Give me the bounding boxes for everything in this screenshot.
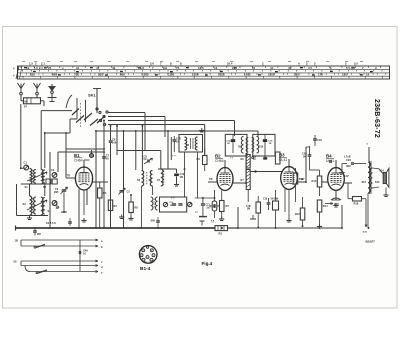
wire speaker top lead xyxy=(372,167,379,170)
pin circle 1 xyxy=(142,258,145,261)
svg-text:49: 49 xyxy=(288,66,292,70)
IF1 second coil S7 xyxy=(161,169,163,186)
svg-text:5 5.5: 5 5.5 xyxy=(346,66,353,70)
wire left nested rail y152 xyxy=(58,151,104,153)
tube base diagram B1-4 xyxy=(139,246,157,264)
wire 92V arrow xyxy=(325,203,333,205)
B1 cathode wires xyxy=(78,189,80,228)
wire antenna A2 down xyxy=(36,95,38,98)
B3 grid wire xyxy=(250,171,281,173)
cathode hum loop xyxy=(331,198,341,200)
svg-text:R13: R13 xyxy=(312,179,317,183)
svg-text:16.5: 16.5 xyxy=(198,66,204,70)
input filter box Z1 xyxy=(24,98,41,104)
wire verticals left-middle zone xyxy=(103,121,105,229)
wire up x342 xyxy=(341,205,343,228)
B4 cathode xyxy=(335,190,337,200)
capacitor C20 xyxy=(308,154,312,156)
svg-text:+ +: + + xyxy=(230,157,234,160)
wire filter output xyxy=(41,100,45,102)
arrow end xyxy=(365,225,367,228)
switch contact xyxy=(106,111,108,113)
tuning arrow upper xyxy=(27,172,47,181)
wire rail y112 xyxy=(108,112,145,114)
coil S3a xyxy=(41,170,43,185)
wire below C6 xyxy=(110,142,112,228)
resistor R12 xyxy=(300,208,305,220)
svg-text:S13: S13 xyxy=(362,181,367,184)
capacitor C12 blob xyxy=(174,174,179,177)
ground below R14 xyxy=(319,224,321,227)
svg-text:14V: 14V xyxy=(344,174,349,178)
trimmer capacitor C1 xyxy=(24,165,29,170)
svg-text:S1: S1 xyxy=(25,185,29,189)
svg-text:1.5 2.1: 1.5 2.1 xyxy=(34,66,43,70)
antenna terminal A1 xyxy=(20,92,23,95)
svg-text:S4: S4 xyxy=(48,209,52,213)
svg-text:31: 31 xyxy=(252,66,256,70)
svg-text:41: 41 xyxy=(270,66,274,70)
capacitor boxes C4a C5a xyxy=(46,179,51,184)
svg-text:1N: 1N xyxy=(227,143,230,145)
oscillator transformer box xyxy=(179,135,203,153)
wire B1 anode top xyxy=(83,160,85,167)
trimmer right of box xyxy=(188,202,192,206)
fuse resistor R1 xyxy=(215,226,228,231)
capacitor C21 xyxy=(329,160,331,163)
wire left vertical x41 xyxy=(40,111,42,169)
wire row1 xyxy=(21,239,98,241)
svg-text:R14: R14 xyxy=(323,204,328,208)
svg-text:R4: R4 xyxy=(114,204,118,208)
wire under coils lower xyxy=(17,215,49,217)
svg-text:S15: S15 xyxy=(375,181,380,184)
wire rail y120 xyxy=(108,120,235,122)
dial scale left end xyxy=(16,66,19,79)
svg-text:1500: 1500 xyxy=(268,73,275,77)
svg-text:8.8: 8.8 xyxy=(163,66,167,70)
padder capacitors xyxy=(172,203,176,205)
core S3-S4 xyxy=(32,198,34,213)
capacitor C10 xyxy=(173,139,177,141)
resistor R8 box xyxy=(256,202,261,213)
svg-text:R3: R3 xyxy=(197,157,201,161)
output transformer S13 primary xyxy=(368,162,370,193)
resistor R3 xyxy=(203,156,208,165)
output transformer core xyxy=(369,161,371,194)
svg-text:B4: B4 xyxy=(326,154,332,159)
resistor R10 xyxy=(242,243,244,245)
svg-text:550: 550 xyxy=(30,73,35,77)
svg-text:SK1: SK1 xyxy=(88,93,97,98)
svg-text:R7: R7 xyxy=(226,204,230,208)
ground below B1 xyxy=(83,218,85,221)
IF1 coil S5 xyxy=(142,171,144,187)
wire C2 down xyxy=(63,192,65,211)
svg-text:180: 180 xyxy=(342,73,347,77)
svg-text:160: 160 xyxy=(294,73,299,77)
svg-text:75: 75 xyxy=(176,66,180,70)
capacitor C13a to ground xyxy=(202,198,204,203)
wire B2 anode up xyxy=(224,160,226,168)
ground below R5 xyxy=(130,216,132,219)
wire drop to R3 xyxy=(204,125,206,156)
wire up x238 xyxy=(237,207,239,228)
wire left nested rail y149 xyxy=(66,148,104,150)
top cap connector B1 xyxy=(90,154,94,158)
IF2 box left xyxy=(225,134,247,156)
wire switch leftside down xyxy=(95,131,97,228)
ground below B2 xyxy=(221,217,223,220)
wire primary top xyxy=(368,147,370,161)
ground at x253 xyxy=(252,215,254,219)
svg-text:800: 800 xyxy=(98,73,103,77)
wire B3 anode right xyxy=(297,181,306,183)
dial scale assembly xyxy=(18,66,390,79)
coil S6a xyxy=(43,198,45,215)
core osc secondary xyxy=(153,199,155,209)
B4 grid stub xyxy=(322,181,328,183)
tube B2 xyxy=(215,154,233,191)
antenna terminal A2 xyxy=(36,92,39,95)
trimmer capacitor C3 xyxy=(52,173,57,178)
wire B2 anode right xyxy=(233,182,246,184)
ground below C12 xyxy=(176,182,178,185)
speaker xyxy=(383,173,386,184)
switch contact xyxy=(99,119,101,121)
wire coil link xyxy=(44,184,46,196)
coupling coils between boxes xyxy=(246,138,248,153)
resistor R16 xyxy=(353,197,362,202)
svg-text:2N5: 2N5 xyxy=(54,191,59,194)
wire R4 down xyxy=(99,198,101,228)
svg-text:..: .. xyxy=(211,220,213,224)
svg-text:R?: R? xyxy=(241,179,245,182)
svg-text:S7: S7 xyxy=(157,178,161,182)
arrow row1 xyxy=(96,239,99,241)
capacitor C18 xyxy=(267,202,271,204)
wire B1 anode to right xyxy=(93,181,108,183)
svg-text:236B-63-72: 236B-63-72 xyxy=(373,99,380,138)
wire rail y124.5 xyxy=(108,124,205,126)
coil S1 xyxy=(30,169,32,185)
core S7 xyxy=(163,171,165,185)
wire vertical x50 xyxy=(49,152,51,228)
wire x306 up xyxy=(305,147,307,182)
svg-text:S3: S3 xyxy=(23,202,27,206)
svg-text:1N: 1N xyxy=(180,175,183,179)
ground bus xyxy=(16,227,216,229)
wire IF1 bottoms xyxy=(141,186,143,228)
switch contact xyxy=(99,111,101,113)
resistor R4 xyxy=(108,200,112,211)
svg-text:+ +: + + xyxy=(172,155,176,158)
capacitor C33 SW mark xyxy=(156,220,160,222)
svg-text:25: 25 xyxy=(48,66,52,70)
dial scale tick marks xyxy=(21,66,385,78)
wire rail y116 xyxy=(108,116,165,118)
ground under C3b xyxy=(121,215,123,218)
wire earth lead xyxy=(51,94,53,98)
svg-text:B3: B3 xyxy=(279,153,285,158)
wire rail y131 xyxy=(96,130,258,132)
wire left vertical to C1 xyxy=(20,104,22,168)
svg-text:R12: R12 xyxy=(295,212,300,216)
IF2 box right xyxy=(253,134,275,156)
svg-text:1.5: 1.5 xyxy=(29,62,33,66)
row5 with curve xyxy=(25,266,30,272)
svg-text:8|16|77: 8|16|77 xyxy=(366,240,376,244)
coil S5a xyxy=(41,197,43,215)
capacitor C15 blob xyxy=(263,139,267,142)
hatched resistor R9b lower xyxy=(246,170,250,190)
ground bar under C2 xyxy=(61,211,67,213)
capacitor C30 xyxy=(33,230,37,232)
svg-text:700: 700 xyxy=(74,73,79,77)
svg-text:1B: 1B xyxy=(15,239,18,243)
wire C20 to R13 xyxy=(310,169,320,171)
resistor R5 xyxy=(129,202,134,213)
ground below B4 xyxy=(335,203,337,206)
svg-text:19: 19 xyxy=(214,66,218,70)
grid stub B1 xyxy=(66,177,75,179)
capacitor C13 pill xyxy=(212,201,217,211)
svg-text:49: 49 xyxy=(112,66,116,70)
ground under S3 xyxy=(29,216,31,219)
core S8 line2 xyxy=(192,138,194,149)
vertical link x80 xyxy=(79,240,81,271)
svg-text:1000: 1000 xyxy=(142,73,149,77)
svg-text:4N7: 4N7 xyxy=(346,164,351,168)
junction dot xyxy=(255,171,257,173)
wire to C1 xyxy=(21,167,24,169)
svg-text:Fig.4: Fig.4 xyxy=(202,261,213,266)
speaker ground xyxy=(385,188,387,193)
wire row4 xyxy=(21,265,98,267)
svg-text:S6: S6 xyxy=(149,178,153,182)
svg-text:1300: 1300 xyxy=(218,73,225,77)
svg-text:C18: C18 xyxy=(263,199,268,201)
svg-text:5.6: 5.6 xyxy=(150,62,154,66)
switch contact xyxy=(103,115,105,117)
resistor R8 volume xyxy=(273,201,279,210)
core S5-S6 xyxy=(146,172,148,185)
svg-text:UL41: UL41 xyxy=(279,158,287,162)
bus left terminal xyxy=(15,226,17,231)
svg-text:1N: 1N xyxy=(269,143,272,145)
svg-text:2.1: 2.1 xyxy=(41,62,45,66)
capacitor C19 xyxy=(313,138,317,140)
ground marks above bus xyxy=(201,221,203,226)
svg-text:R11: R11 xyxy=(299,177,304,181)
svg-text:2M: 2M xyxy=(37,232,41,236)
B3 cathode parts xyxy=(284,189,286,212)
svg-text:C3: C3 xyxy=(51,168,55,172)
hatched resistor R9 upper xyxy=(246,155,250,169)
svg-text:B1: B1 xyxy=(74,153,80,158)
tube B1 xyxy=(74,153,93,190)
capacitor C40 xyxy=(78,251,80,254)
resistor R7 xyxy=(220,201,225,212)
wire top link over IF1 xyxy=(158,168,177,170)
heavy ground bar xyxy=(199,216,207,218)
capacitor C7 xyxy=(102,156,106,158)
svg-text:R16: R16 xyxy=(354,202,359,206)
tube B4 xyxy=(326,154,344,191)
switch arm row5 xyxy=(38,270,47,273)
output transformer S14 secondary xyxy=(370,168,372,188)
wire switch to left xyxy=(41,110,72,112)
wire drop x165 xyxy=(164,117,166,138)
wire rail y150 xyxy=(117,150,161,152)
IF1 coil S6 xyxy=(150,171,152,187)
svg-text:31: 31 xyxy=(76,66,80,70)
svg-text:S10: S10 xyxy=(259,146,264,149)
capacitor C14 blob xyxy=(231,139,235,142)
wire row2 xyxy=(21,245,98,247)
svg-text:a a: a a xyxy=(363,231,367,234)
svg-text:CH64: CH64 xyxy=(215,159,224,163)
svg-text:170: 170 xyxy=(318,73,323,77)
svg-text:900: 900 xyxy=(120,73,125,77)
variable capacitor C3b xyxy=(120,190,124,192)
coil S10 xyxy=(257,137,259,154)
svg-text:SW: SW xyxy=(151,219,156,223)
ground stub under rail xyxy=(201,128,203,131)
wire drop x234 xyxy=(234,121,236,137)
svg-text:C1: C1 xyxy=(24,161,28,165)
svg-text:1R: 1R xyxy=(170,205,173,207)
svg-text:R1: R1 xyxy=(219,232,223,236)
wire bus after R1 xyxy=(228,227,239,229)
coil S4 xyxy=(34,197,36,214)
resistor R2b xyxy=(98,188,103,198)
wire down to arrow xyxy=(365,199,367,227)
wire vertical x168 x171 xyxy=(167,131,169,169)
svg-text:19: 19 xyxy=(366,73,370,77)
dial scale numerals xyxy=(26,66,377,77)
ground below B3 xyxy=(288,218,290,221)
switch arm row2 xyxy=(36,245,45,248)
pin circle 6 xyxy=(150,258,153,261)
svg-text:SW: SW xyxy=(274,197,279,201)
key pin xyxy=(146,246,148,248)
trimmer capacitor C2 xyxy=(52,201,57,206)
wire primary bottom down xyxy=(367,193,369,228)
pin circle 7 xyxy=(152,254,155,257)
svg-text:4 5: 4 5 xyxy=(308,66,312,70)
coil S2 xyxy=(34,170,36,184)
dash row above dial scale xyxy=(22,60,363,62)
wire sk1 stub xyxy=(70,118,77,120)
arrow row2 xyxy=(96,245,99,247)
svg-text:R5: R5 xyxy=(135,206,139,210)
capacitor C6 xyxy=(109,140,113,142)
trimmer in padder box xyxy=(163,202,167,206)
pin circle 8 xyxy=(150,249,153,252)
osc coil leads down xyxy=(184,169,186,197)
wire under coils upper xyxy=(21,183,48,185)
base gap mark left xyxy=(145,262,146,264)
resistor R14 xyxy=(317,200,322,212)
svg-text:41: 41 xyxy=(96,66,100,70)
core S8 line1 xyxy=(190,138,192,149)
pin circle 3 xyxy=(142,249,145,252)
wire drop x145 xyxy=(144,113,146,152)
antenna symbol A1 xyxy=(18,83,25,92)
wire y198 xyxy=(195,197,214,199)
capacitor C23 xyxy=(351,162,353,165)
earth terminal xyxy=(51,91,54,94)
B2 grid stub xyxy=(208,181,217,183)
coil S9 xyxy=(241,137,243,154)
grid resistor R13 xyxy=(317,176,322,187)
svg-text:C23: C23 xyxy=(346,158,351,162)
marks above dial scale xyxy=(0,0,1,1)
svg-text:1100: 1100 xyxy=(168,73,175,77)
tuning arrow lower xyxy=(27,200,47,210)
tube B3 xyxy=(279,153,297,190)
earth input symbol xyxy=(49,87,55,91)
svg-text:TR: TR xyxy=(209,177,213,181)
wire drop to S7 xyxy=(160,151,162,170)
base gap mark right xyxy=(150,262,151,264)
variable capacitor C2 xyxy=(62,189,67,191)
svg-text:CH64: CH64 xyxy=(74,159,83,163)
svg-text:600: 600 xyxy=(52,73,57,77)
osc secondary coil pair xyxy=(151,197,153,210)
coil S4a xyxy=(43,170,45,183)
dial bold number clusters xyxy=(24,67,373,76)
wire antenna A1 down xyxy=(20,95,22,101)
resistor R11 xyxy=(293,173,298,184)
svg-text:S5: S5 xyxy=(137,178,141,182)
svg-text:B2: B2 xyxy=(215,154,221,159)
B4 anode right xyxy=(344,182,352,184)
svg-text:R3: R3 xyxy=(103,191,107,195)
svg-text:TR: TR xyxy=(67,174,71,178)
switch contact xyxy=(96,108,98,110)
svg-text:C19: C19 xyxy=(317,138,322,142)
pin circle 2 xyxy=(140,254,143,257)
svg-text:5M: 5M xyxy=(247,209,250,211)
svg-text:5.5: 5.5 xyxy=(354,62,358,66)
grid terminal circle xyxy=(252,156,254,158)
wire row5 xyxy=(30,271,98,273)
oscillator coil S8 xyxy=(185,137,187,150)
ground below C23 xyxy=(341,170,343,173)
resistor R10 xyxy=(275,152,280,164)
wire left loop to coils xyxy=(45,132,70,134)
padder box xyxy=(160,197,187,212)
svg-text:2x?: 2x? xyxy=(207,207,212,209)
svg-text:1200: 1200 xyxy=(192,73,199,77)
svg-text:B1-4: B1-4 xyxy=(140,266,151,272)
antenna symbol A2 xyxy=(34,83,41,92)
pin circle 5 xyxy=(146,256,149,259)
switch contact xyxy=(103,123,105,125)
svg-text:1M: 1M xyxy=(56,208,59,210)
wire row3 xyxy=(21,260,98,262)
svg-text:100: 100 xyxy=(112,140,117,144)
wire B4 anode up xyxy=(335,160,337,168)
wire bus extension xyxy=(238,227,342,229)
svg-text:5N: 5N xyxy=(303,154,306,158)
wire S8 down xyxy=(184,152,186,169)
wire B3 anode up xyxy=(288,159,290,167)
core S1-S2 xyxy=(32,170,34,183)
capacitor C8 xyxy=(147,159,149,162)
